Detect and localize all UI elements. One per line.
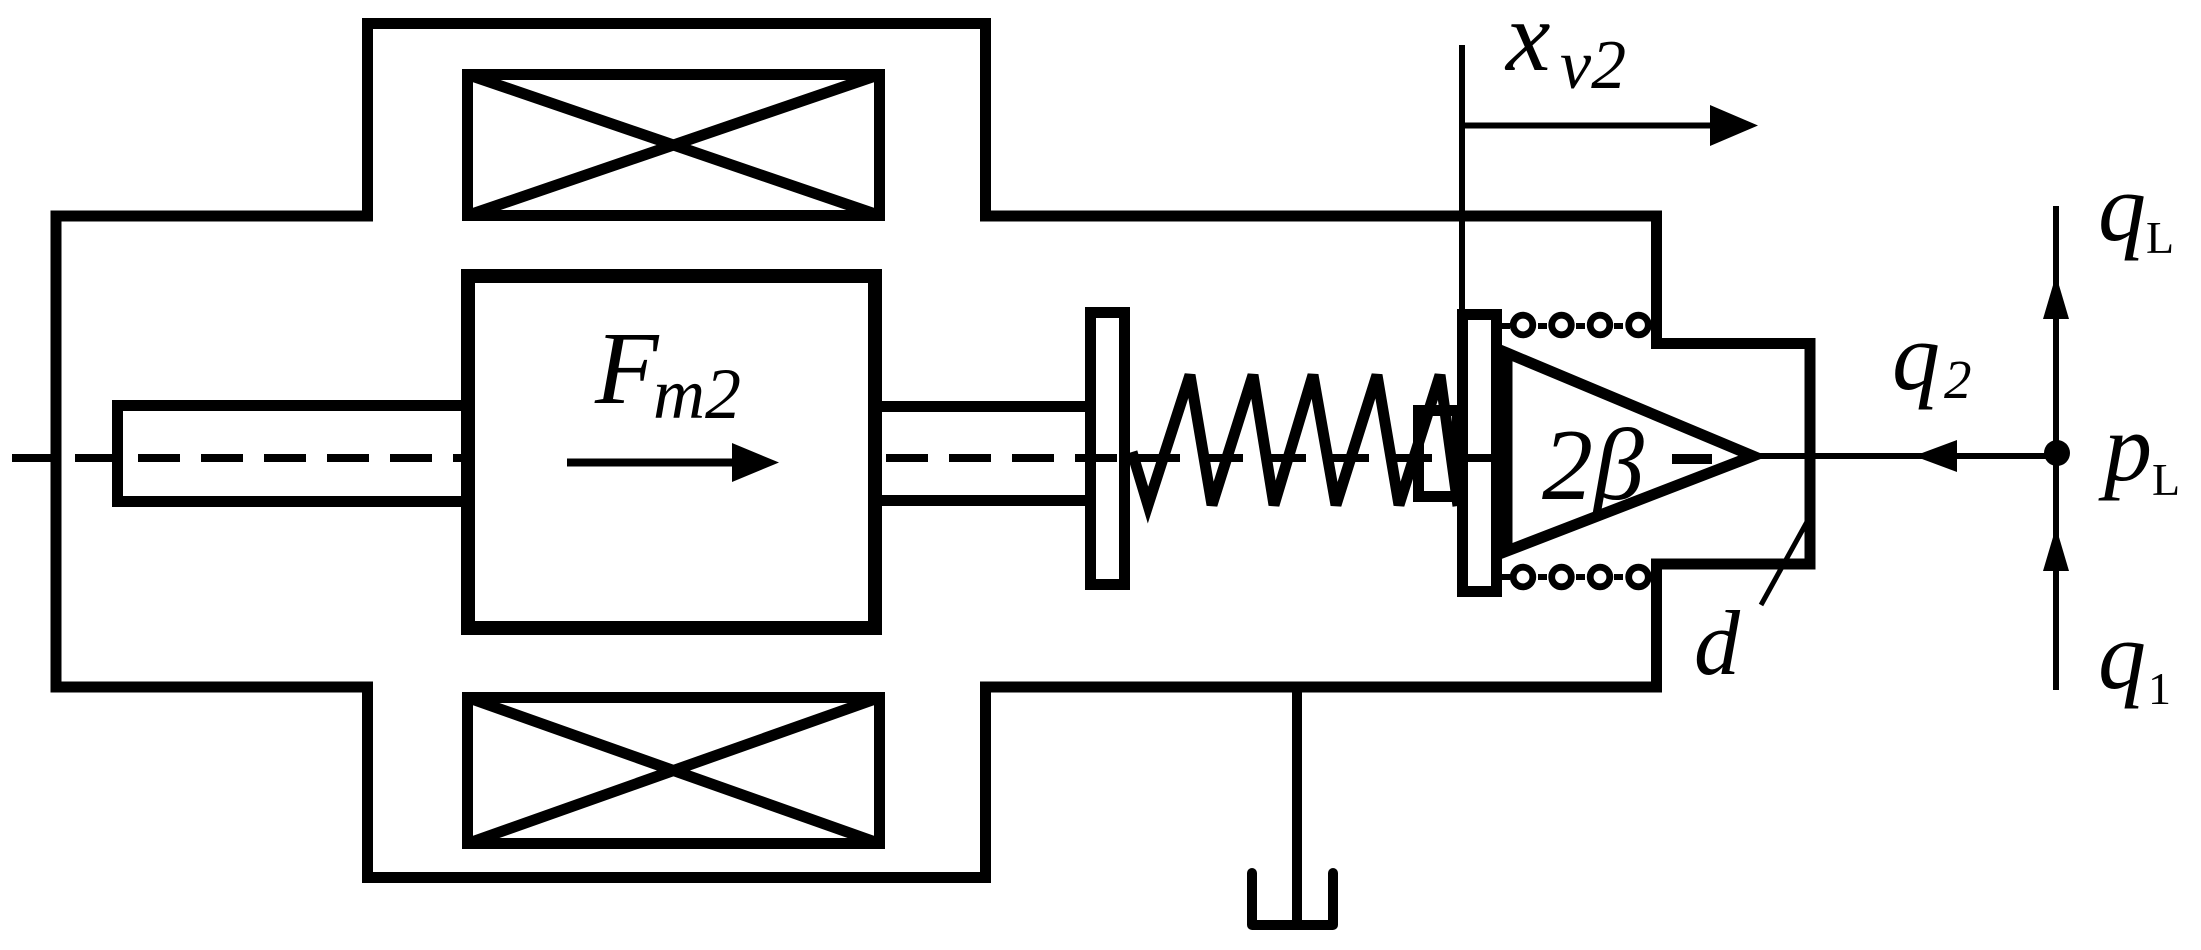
damping orifice circles (bottom row) — [1513, 567, 1648, 587]
svg-text:x: x — [1504, 0, 1550, 92]
push rod (left) — [118, 406, 471, 502]
svg-text:q: q — [2098, 154, 2146, 261]
svg-text:m2: m2 — [653, 354, 741, 434]
centerline dash at cone apex — [1672, 454, 1712, 464]
valve housing outline — [56, 24, 1810, 878]
force arrow Fm2 — [567, 443, 779, 482]
solenoid coil (top) — [468, 75, 880, 216]
svg-text:L: L — [2146, 212, 2174, 263]
poppet cone 2beta — [1507, 353, 1753, 551]
ground stem — [1292, 687, 1302, 921]
ground symbol — [1252, 873, 1333, 925]
spring — [1132, 375, 1458, 506]
spring seat stub — [1419, 411, 1458, 497]
svg-text:v2: v2 — [1560, 27, 1626, 104]
svg-text:2β: 2β — [1542, 409, 1644, 522]
arrow q1 (up) — [2043, 527, 2069, 571]
flow line q2 with arrow — [1753, 440, 2053, 472]
solenoid coil (bottom) — [468, 698, 880, 844]
push rod (right) — [875, 407, 1091, 501]
load port line (vertical) — [2053, 206, 2059, 690]
damping orifice dashes (bottom row) — [1502, 574, 1623, 580]
arrow qL (up) — [2043, 275, 2069, 319]
svg-text:2: 2 — [1944, 349, 1972, 410]
centerline (dashed, left of armature) — [12, 454, 461, 462]
svg-text:1: 1 — [2148, 663, 2171, 714]
damping orifice circles (top row) — [1513, 315, 1648, 335]
damping orifice dashes (top row) — [1502, 323, 1623, 329]
displacement axis xv2 (arrow) — [1462, 105, 1758, 146]
guide flange (right) — [1463, 315, 1497, 592]
svg-text:q: q — [1892, 303, 1940, 410]
svg-text:L: L — [2152, 454, 2180, 505]
seat diameter leader line — [1761, 520, 1808, 605]
svg-text:F: F — [594, 311, 660, 426]
centerline (dashed, right of armature) — [886, 454, 1502, 462]
armature block — [468, 276, 875, 628]
node pL (dot) — [2044, 440, 2070, 466]
guide flange (left) — [1091, 313, 1125, 585]
svg-text:d: d — [1694, 592, 1741, 694]
displacement axis xv2 (vertical) — [1459, 45, 1465, 312]
svg-text:p: p — [2098, 394, 2152, 501]
svg-text:q: q — [2098, 602, 2146, 709]
